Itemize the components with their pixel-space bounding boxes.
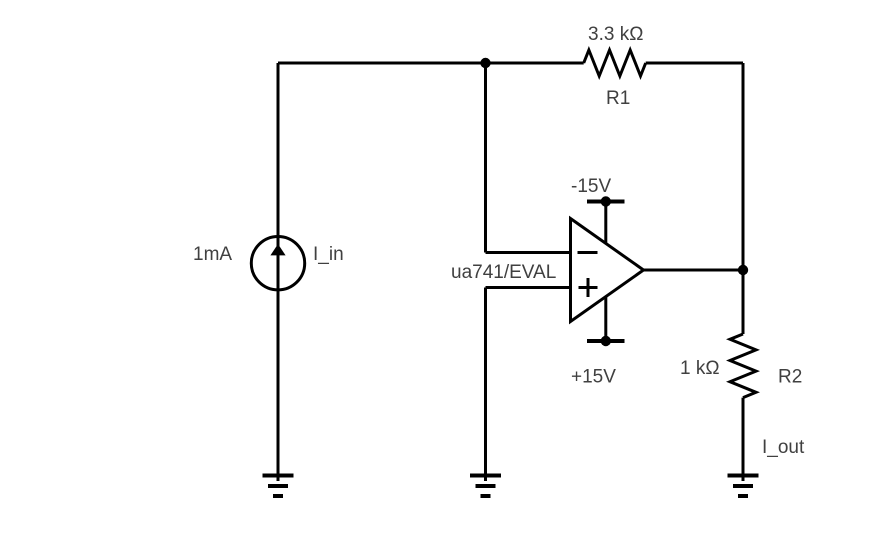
- wire left vertical from current source to ground: [277, 291, 280, 482]
- wire non-inverting input horizontal: [486, 286, 571, 289]
- resistor R1: [584, 50, 646, 76]
- svg-text:ua741/EVAL: ua741/EVAL: [451, 262, 556, 283]
- power -15V rail bar: [587, 200, 625, 204]
- ground symbol left: [263, 476, 294, 497]
- svg-text:3.3 kΩ: 3.3 kΩ: [588, 24, 643, 45]
- svg-text:R1: R1: [606, 88, 630, 109]
- ground symbol middle: [470, 476, 501, 497]
- svg-text:R2: R2: [778, 367, 802, 388]
- wire left vertical from top corner to current source: [277, 63, 280, 236]
- wire op-amp output horizontal: [644, 269, 744, 272]
- resistor R2: [730, 334, 756, 398]
- power +15V terminal dot: [601, 336, 611, 346]
- svg-text:+15V: +15V: [571, 367, 616, 388]
- power +15V stub wire: [604, 297, 607, 342]
- svg-text:1 kΩ: 1 kΩ: [680, 358, 720, 379]
- wire middle vertical from top junction down to inverting input: [484, 63, 487, 253]
- wire inverting input horizontal: [486, 251, 571, 254]
- wire right vertical from top corner to output node: [742, 63, 745, 270]
- svg-text:-15V: -15V: [571, 176, 611, 197]
- node junction dot top: [480, 58, 490, 68]
- svg-text:1mA: 1mA: [193, 244, 232, 265]
- current source I1 arrow: [270, 244, 285, 255]
- wire top horizontal right segment: [646, 62, 743, 65]
- power +15V rail bar: [587, 339, 625, 343]
- svg-text:I_out: I_out: [762, 437, 805, 458]
- current source I1 internal wire: [277, 236, 280, 290]
- power -15V terminal dot: [601, 196, 611, 206]
- op-amp U1 triangle: [571, 219, 644, 322]
- ground symbol right: [728, 476, 759, 497]
- wire right vertical output node to R2: [742, 270, 745, 334]
- op-amp U1 plus sign: [579, 278, 598, 297]
- op-amp U1 minus sign: [578, 251, 598, 254]
- node junction dot output: [738, 265, 748, 275]
- wire middle vertical from non-inverting input to ground: [484, 288, 487, 482]
- svg-text:I_in: I_in: [313, 244, 344, 265]
- wire top horizontal left segment: [278, 62, 584, 65]
- current source I1 circle: [251, 237, 304, 290]
- power -15V stub wire: [604, 202, 607, 244]
- wire right vertical R2 to ground: [742, 398, 745, 481]
